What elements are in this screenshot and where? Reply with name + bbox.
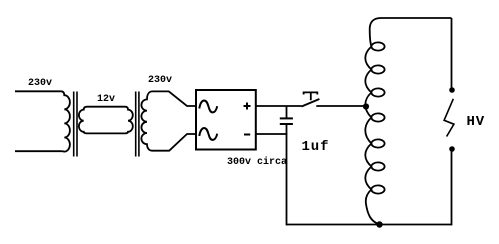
- transformer T2 secondary winding and funnel to rectifier: [141, 91, 196, 150]
- wire right vertical top: [451, 18, 453, 88]
- svg-text:1uf: 1uf: [302, 139, 330, 155]
- svg-text:300v circa: 300v circa: [227, 156, 287, 168]
- rectifier minus terminal: [244, 134, 250, 136]
- spark gap top terminal dot: [449, 87, 455, 93]
- transformer T2 primary (12v loop right): [106, 107, 133, 134]
- junction dot coil bottom: [376, 221, 382, 227]
- transformer T1 core: [73, 92, 75, 157]
- wire bottom rail: [287, 224, 452, 226]
- rectifier AC sine bottom: [199, 128, 217, 140]
- wire + rail from rectifier to switch: [256, 105, 302, 107]
- rectifier AC sine top: [199, 101, 217, 113]
- rectifier bridge box: [196, 90, 256, 150]
- wire switch to coil: [316, 105, 366, 107]
- wire - from rectifier to capacitor: [256, 133, 287, 135]
- junction dot coil tap: [363, 103, 369, 109]
- svg-text:230v: 230v: [148, 75, 172, 86]
- pushbutton switch S1 plunger: [304, 92, 318, 100]
- svg-text:HV: HV: [467, 114, 486, 130]
- coil L1: [365, 18, 384, 224]
- svg-text:12v: 12v: [97, 94, 115, 105]
- capacitor C1 bottom lead down to bottom rail: [286, 124, 288, 225]
- spark gap bottom terminal dot: [449, 146, 455, 152]
- transformer T1 secondary (12v loop left): [79, 107, 106, 134]
- wire right vertical bottom: [451, 152, 453, 226]
- wire top rail: [381, 17, 452, 19]
- transformer T2 core: [135, 92, 137, 157]
- svg-text:230v: 230v: [28, 78, 52, 89]
- pushbutton switch S1 blade: [302, 99, 320, 107]
- transformer T1 primary winding: [15, 91, 70, 151]
- capacitor C1 plates: [280, 117, 293, 119]
- rectifier plus terminal: [244, 105, 251, 107]
- spark gap lightning bolt: [444, 99, 454, 137]
- capacitor C1 top lead: [286, 106, 288, 118]
